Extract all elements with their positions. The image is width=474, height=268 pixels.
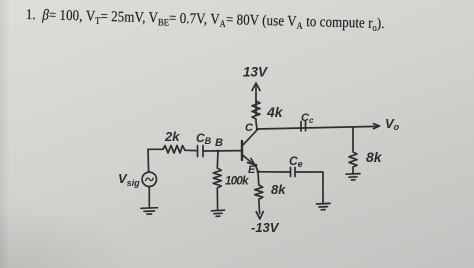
svg-text:100k: 100k [225, 176, 249, 188]
svg-text:13V: 13V [243, 65, 268, 80]
svg-text:Cc: Cc [301, 112, 314, 125]
svg-text:4k: 4k [266, 104, 284, 120]
svg-text:8k: 8k [271, 182, 286, 197]
svg-text:-13V: -13V [251, 220, 280, 235]
svg-text:E: E [248, 164, 256, 176]
svg-text:B: B [215, 137, 223, 149]
svg-text:CB: CB [196, 131, 212, 146]
svg-text:Ce: Ce [289, 154, 303, 169]
svg-text:C: C [245, 122, 254, 134]
svg-text:Vsig: Vsig [118, 171, 140, 188]
svg-text:Vo: Vo [385, 116, 400, 132]
svg-text:8k: 8k [366, 149, 383, 165]
svg-text:2k: 2k [164, 129, 180, 144]
